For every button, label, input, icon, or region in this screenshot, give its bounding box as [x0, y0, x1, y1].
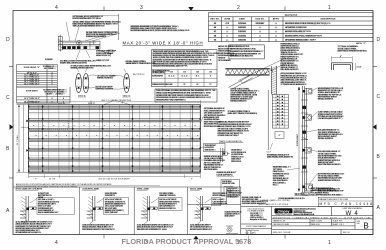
svg-text:OTHER THE 1/4" BOLT.: OTHER THE 1/4" BOLT.: [218, 134, 240, 137]
callout text: stop molding: [73, 15, 98, 17]
svg-text:MOUNT EACH BRACKET.: MOUNT EACH BRACKET.: [190, 228, 213, 231]
svg-text:DOOR HEIGHT: DOOR HEIGHT: [297, 133, 299, 146]
svg-text:VIEW "B": VIEW "B": [88, 103, 96, 105]
svg-text:10/2005: 10/2005: [238, 31, 247, 33]
svg-text:FINISH BOTH SIDES: FINISH BOTH SIDES: [86, 36, 107, 38]
svg-text:20'-3 1/2" OUT TO OUT DOOR WID: 20'-3 1/2" OUT TO OUT DOOR WIDTH: [98, 178, 130, 180]
stile section views A and B: [76, 73, 82, 92]
svg-text:WOOD JAMB: WOOD JAMB: [190, 188, 203, 191]
svg-text:DESIGN PROFESSIONAL MAY DIFFER: DESIGN PROFESSIONAL MAY DIFFER.: [153, 65, 189, 68]
section joints on edge view: [301, 100, 308, 172]
svg-text:VIEW "C" TYP: VIEW "C" TYP: [96, 60, 110, 62]
svg-text:DF05987: DF05987: [256, 23, 266, 25]
svg-text:DOOR WIDTH: DOOR WIDTH: [26, 91, 38, 93]
svg-text:SPEED (MPH): SPEED (MPH): [152, 72, 165, 74]
svg-text:(STEEL): (STEEL): [56, 93, 63, 95]
svg-text:3" TRACK ALSO AVAILABLE: 3" TRACK ALSO AVAILABLE: [281, 83, 308, 86]
small mark under title start: [108, 50, 113, 53]
svg-text:FASTENED DIRECTLY IN CONCRETE.: FASTENED DIRECTLY IN CONCRETE.: [82, 228, 116, 231]
glass note above tolerances: [242, 197, 259, 199]
svg-text:150: 150: [209, 71, 212, 73]
svg-text:ZONE: ZONE: [224, 19, 231, 21]
svg-text:SHAFT DBL OR NYLON TIRE): SHAFT DBL OR NYLON TIRE): [60, 62, 87, 65]
address lines: [294, 208, 316, 210]
svg-text:APP'D: APP'D: [273, 18, 280, 21]
svg-text:FLA. APPROVAL NO. P.S. B9313: FLA. APPROVAL NO. P.S. B9313: [311, 194, 344, 197]
svg-text:ADDED ROLLER OPTION: ADDED ROLLER OPTION: [285, 30, 311, 33]
vertical stiles: [39, 105, 191, 172]
svg-text:D: D: [6, 37, 10, 43]
svg-text:B, C, D: B, C, D: [182, 76, 188, 78]
svg-text:SCALE: NTS: SCALE: NTS: [333, 220, 344, 223]
shaft circle: [77, 41, 82, 46]
svg-text:ANGLE LOCATION: ANGLE LOCATION: [159, 207, 176, 210]
svg-text:TEK+/LGS FASTENING SYSTEM: TEK+/LGS FASTENING SYSTEM: [73, 25, 105, 28]
strip notes right of wood jamb: [227, 188, 239, 189]
svg-text:WHEEL OR NYLON TIRE: WHEEL OR NYLON TIRE: [71, 68, 95, 70]
left edge arrows: [26, 120, 28, 123]
callout text: section note: [86, 31, 117, 33]
header/track horizontal assembly: [59, 41, 101, 44]
svg-text:DWG. NO.: 102-GR: DWG. NO.: 102-GR: [273, 232, 291, 234]
weather seal text: [273, 166, 288, 168]
svg-text:JAMB BRKT. TRACK BOLTED: JAMB BRKT. TRACK BOLTED: [126, 62, 156, 65]
svg-text:SECN. "C": SECN. "C": [356, 43, 366, 45]
heavy stiles: [43, 105, 193, 172]
optional closed note box: [155, 89, 217, 102]
callout text: end stile: [73, 21, 116, 23]
svg-text:6": 6": [340, 56, 342, 58]
external insulation text: [267, 154, 285, 156]
bottom bar end detail: [226, 226, 238, 234]
svg-text:STILES: STILES: [45, 93, 52, 95]
svg-text:11/2005: 11/2005: [238, 35, 246, 37]
oval callout texts: [71, 65, 107, 67]
svg-text:9: 9: [52, 83, 53, 85]
svg-text:MODIFIED MIDDLE 20'2, DODL 20': MODIFIED MIDDLE 20'2, DODL 20'4/ 20'62 O…: [131, 29, 190, 32]
svg-text:EACH BRACKET: EACH BRACKET: [213, 203, 229, 206]
svg-text:REVISIONS: REVISIONS: [285, 15, 298, 17]
hatch in vertical track: [271, 67, 276, 96]
svg-text:SECTION 2-2: SECTION 2-2: [133, 74, 145, 76]
left dim line of section: [298, 87, 300, 192]
svg-text:VIEW "A": VIEW "A": [58, 102, 66, 105]
windcode note box: [152, 50, 218, 87]
svg-text:SHEET METAL SCREWS.: SHEET METAL SCREWS.: [318, 179, 341, 182]
leader vertical line: [118, 14, 120, 40]
bottom roller bracket: [305, 184, 313, 191]
Clopay logo: [275, 208, 293, 213]
svg-text:18'-1" O.A.H.: 18'-1" O.A.H.: [16, 134, 19, 145]
assembly end ticks: [90, 41, 100, 49]
svg-text:REV. NO.: REV. NO.: [210, 19, 220, 21]
section text blocks right: [318, 87, 338, 89]
svg-text:16'-1" THRU 18'-0": 16'-1" THRU 18'-0": [24, 83, 40, 85]
svg-text:JAMB BY OTHERS: JAMB BY OTHERS: [159, 194, 176, 197]
svg-text:(SEE PANEL EXPLANATION): (SEE PANEL EXPLANATION): [267, 156, 293, 159]
svg-text:ONE #2 C-CHANNEL PER SECTION: ONE #2 C-CHANNEL PER SECTION: [101, 99, 132, 102]
revision table: [209, 13, 374, 42]
svg-text:Mason, OH 45040 U.S.A.: Mason, OH 45040 U.S.A.: [294, 213, 316, 216]
vertical track note: [218, 121, 245, 123]
svg-text:16'-2" THRU 18'-2": 16'-2" THRU 18'-2": [24, 98, 40, 100]
door height table: [17, 65, 70, 104]
svg-text:METAL SCREWS: METAL SCREWS: [97, 76, 113, 79]
svg-text:WOOD JAMB ON CONCRETE: WOOD JAMB ON CONCRETE: [16, 188, 43, 191]
title block frame: [241, 207, 373, 235]
svg-text:DATE: DATE: [239, 18, 245, 21]
svg-text:REVISED END STILE FROM (2) PG: REVISED END STILE FROM (2) PG TO (1) PG: [285, 23, 331, 25]
svg-text:1: 1: [328, 5, 331, 11]
svg-text:B, C, D: B, C, D: [169, 76, 175, 78]
door height table text: [24, 66, 67, 104]
svg-text:2: 2: [237, 5, 240, 11]
svg-text:FLORIDA PRODUCT APPROVAL 5678: FLORIDA PRODUCT APPROVAL 5678: [122, 237, 252, 246]
C channel dims: [332, 57, 353, 59]
svg-text:B: B: [363, 221, 368, 230]
hinge dots: [28, 106, 201, 172]
svg-text:SECTIONS: SECTIONS: [44, 68, 54, 70]
top dimension line: [29, 100, 201, 105]
svg-text:Angular = 1/2 deg: Angular = 1/2 deg: [250, 218, 267, 221]
section leaders: [307, 88, 318, 193]
left dimension lines: [17, 105, 29, 173]
hinge 3: [302, 131, 306, 134]
svg-text:HOLE 7/8" DIA: HOLE 7/8" DIA: [222, 182, 235, 185]
svg-text:(MIN .083" TRACK THICKNESS): (MIN .083" TRACK THICKNESS): [228, 112, 258, 115]
svg-text:AT MAXIMUM LIP LOCATION.: AT MAXIMUM LIP LOCATION.: [16, 231, 42, 234]
inside styles text: [204, 155, 220, 157]
svg-text:DRAWN BY: JW: DRAWN BY: JW: [273, 220, 286, 223]
rib bands: [29, 108, 201, 174]
svg-text:REV: OK: REV: OK: [343, 232, 351, 234]
track size text: [228, 110, 248, 112]
svg-text:CONCRETE JAMB: CONCRETE JAMB: [82, 188, 99, 191]
leader lines from note box to truss: [239, 59, 285, 84]
svg-text:(MIN YIELD STRENGTH 80 KSI): (MIN YIELD STRENGTH 80 KSI): [338, 50, 368, 52]
svg-text:3: 3: [140, 5, 143, 11]
inside slide bolt label: [217, 172, 235, 174]
svg-text:OF A GRADED: OF A GRADED: [218, 59, 231, 62]
slide bolt text: [231, 149, 240, 151]
svg-text:UPDATED WINDCODE CHART: UPDATED WINDCODE CHART: [285, 39, 316, 42]
glazing symbols rows 2 and 3: [33, 125, 199, 137]
svg-text:4: 4: [52, 97, 53, 100]
svg-text:4: 4: [55, 5, 58, 11]
oval leaders: [76, 66, 126, 89]
horizontal track truss: [225, 69, 269, 75]
svg-text:CHECKED BY: WHM: CHECKED BY: WHM: [273, 224, 290, 226]
windcode chart grid: [152, 69, 218, 86]
svg-text:P.T.I.: P.T.I.: [273, 185, 277, 187]
design responsibility note box: [229, 45, 264, 59]
svg-text:6-1/2": 6-1/2": [267, 152, 272, 154]
svg-text:DCN NO.: DCN NO.: [255, 19, 264, 21]
svg-text:SHEET 1 OF 1: SHEET 1 OF 1: [333, 224, 344, 226]
vertical door section edge view: [302, 86, 306, 193]
vertical track hatched band: [271, 66, 276, 94]
svg-text:SELF TAPPING SCREWS.: SELF TAPPING SCREWS.: [318, 163, 342, 166]
svg-text:C: C: [6, 95, 10, 101]
bottom dimension: [29, 172, 201, 178]
jamb box4 bottom divider: [188, 203, 241, 205]
fold mark below border: [248, 236, 250, 244]
svg-text:PER DOOR.: PER DOOR.: [231, 161, 242, 163]
svg-text:EACH JAMB BRACKET: EACH JAMB BRACKET: [38, 211, 59, 214]
truss zigzag: [226, 70, 270, 74]
svg-text:METAL SCREWS.: METAL SCREWS.: [318, 98, 334, 101]
svg-text:130: 130: [170, 71, 173, 73]
svg-text:130: 130: [183, 71, 186, 73]
svg-text:140: 140: [196, 70, 199, 73]
svg-text:DATE: 1/24/92: DATE: 1/24/92: [311, 220, 322, 223]
svg-text:INTO THE UNIT: INTO THE UNIT: [105, 212, 119, 214]
svg-text:DOOR INSTALLED 7'8" HIGH: DOOR INSTALLED 7'8" HIGH: [73, 17, 102, 20]
svg-text:UPDATED CODE REF.: UPDATED CODE REF.: [285, 26, 308, 29]
svg-text:02/2010: 02/2010: [238, 40, 247, 42]
svg-text:Clopay: Clopay: [278, 209, 291, 213]
slide bolt drawing: [221, 148, 230, 162]
centre markers: [188, 7, 193, 11]
callout text: winder assembly: [131, 25, 171, 27]
svg-text:02/2005: 02/2005: [238, 27, 247, 29]
door elevation outer rect: [29, 105, 201, 172]
bottom weather seal: [302, 193, 309, 196]
svg-text:4: 4: [55, 240, 58, 246]
roller hinge 2: [305, 115, 312, 120]
svg-text:TRACK CONFIGURATION: TRACK CONFIGURATION: [219, 140, 242, 143]
dashed option outline: [29, 120, 69, 129]
bolt blob row: [63, 46, 100, 49]
jamb boxes dividers: [13, 187, 241, 235]
svg-text:AT BRACKET: AT BRACKET: [227, 196, 239, 199]
svg-text:DETAILS BELOW.: DETAILS BELOW.: [230, 100, 247, 103]
svg-text:EXPOSURE: EXPOSURE: [152, 76, 163, 78]
jamb line left of track box: [267, 90, 269, 150]
hinge 5: [302, 166, 306, 169]
svg-text:3-PIECE: 3-PIECE: [45, 59, 53, 61]
svg-text:5: 5: [52, 101, 53, 103]
roller hinge 4: [305, 148, 312, 154]
vertical track detail box: [272, 95, 288, 129]
address over title block: [311, 187, 331, 189]
svg-text:62" TYP: 62" TYP: [49, 178, 56, 180]
svg-text:DESCRIPTION: DESCRIPTION: [321, 19, 336, 21]
angle strut: [229, 75, 253, 89]
callout text below assembly: [126, 60, 145, 62]
svg-text:C: C: [377, 94, 381, 100]
manufacturing facility: [318, 197, 373, 206]
top corner curve: [270, 69, 273, 72]
svg-text:07/2004: 07/2004: [238, 22, 247, 25]
svg-text:WELDED OR SCREWED TO JAMB.: WELDED OR SCREWED TO JAMB.: [137, 228, 168, 231]
svg-text:METAL SCREWS.: METAL SCREWS.: [318, 137, 334, 140]
top roller bracket: [305, 89, 312, 95]
horizontal track support text column: [281, 43, 296, 45]
svg-text:DATE: 4/96: DATE: 4/96: [311, 223, 320, 226]
svg-text:BE LEVEL ACROSS.: BE LEVEL ACROSS.: [281, 68, 300, 71]
leader lines to winder text: [66, 22, 120, 60]
svg-text:REGION (FIG / OK) CHAPTER 16.: REGION (FIG / OK) CHAPTER 16.: [156, 98, 186, 101]
text right of track box: [281, 73, 302, 75]
svg-text:LOCATION (SEE VIEW "C").: LOCATION (SEE VIEW "C").: [318, 117, 344, 120]
lock bar detail box: [221, 180, 240, 197]
windcode chart text: [152, 69, 212, 86]
svg-text:2-1/2": 2-1/2": [357, 66, 362, 68]
small box below track box: [275, 132, 284, 139]
svg-text:SEE NOTE 3: SEE NOTE 3: [205, 149, 216, 151]
svg-text:HIGH STCH "A": HIGH STCH "A": [96, 54, 111, 57]
svg-text:DESCRIPTION: COMMERCIAL RIBBED: DESCRIPTION: COMMERCIAL RIBBED STEEL DOO…: [273, 216, 372, 219]
svg-text:4: 4: [63, 97, 64, 100]
svg-text:18'-3" THRU 20'-3": 18'-3" THRU 20'-3": [24, 101, 40, 103]
svg-text:ADDED WPD, FULL-VISION OPTION: ADDED WPD, FULL-VISION OPTION: [285, 34, 322, 37]
svg-text:CONCRETE: CONCRETE: [105, 195, 116, 197]
svg-text:6": 6": [279, 135, 281, 137]
small note above door height table: [45, 59, 52, 61]
section joint lines: [29, 107, 201, 174]
flag bracket text: [230, 88, 248, 90]
svg-text:SEE CHART: SEE CHART: [225, 215, 236, 218]
header left hatched bracket: [58, 35, 62, 52]
svg-text:FOR MAX SIZES ALLOWED.: FOR MAX SIZES ALLOWED.: [242, 202, 267, 205]
C channel drawing: [332, 63, 353, 71]
svg-text:DOOR HEIGHT "H": DOOR HEIGHT "H": [24, 67, 40, 69]
leaders from door to texts: [200, 116, 203, 160]
svg-text:SIZE: SIZE: [357, 223, 360, 225]
svg-text:D: D: [377, 37, 381, 43]
optional full vision text: [204, 108, 220, 110]
height location box: [204, 144, 226, 152]
svg-text:W 4: W 4: [345, 210, 358, 217]
svg-text:WOOD FRAME: WOOD FRAME: [213, 194, 227, 197]
hinge 1: [302, 106, 306, 109]
svg-text:MFD C-PAN-16448: MFD C-PAN-16448: [320, 202, 373, 206]
svg-text:1: 1: [328, 240, 331, 246]
svg-text:MAX 20'-3" WIDE X 18'-0" HIGH: MAX 20'-3" WIDE X 18'-0" HIGH: [123, 41, 204, 46]
svg-text:STEEL JAMB: STEEL JAMB: [137, 188, 150, 191]
small text left of note box: [218, 46, 229, 48]
svg-text:SECTION SKIN.: SECTION SKIN.: [204, 169, 219, 171]
svg-text:DWG: DWG: [357, 221, 360, 223]
